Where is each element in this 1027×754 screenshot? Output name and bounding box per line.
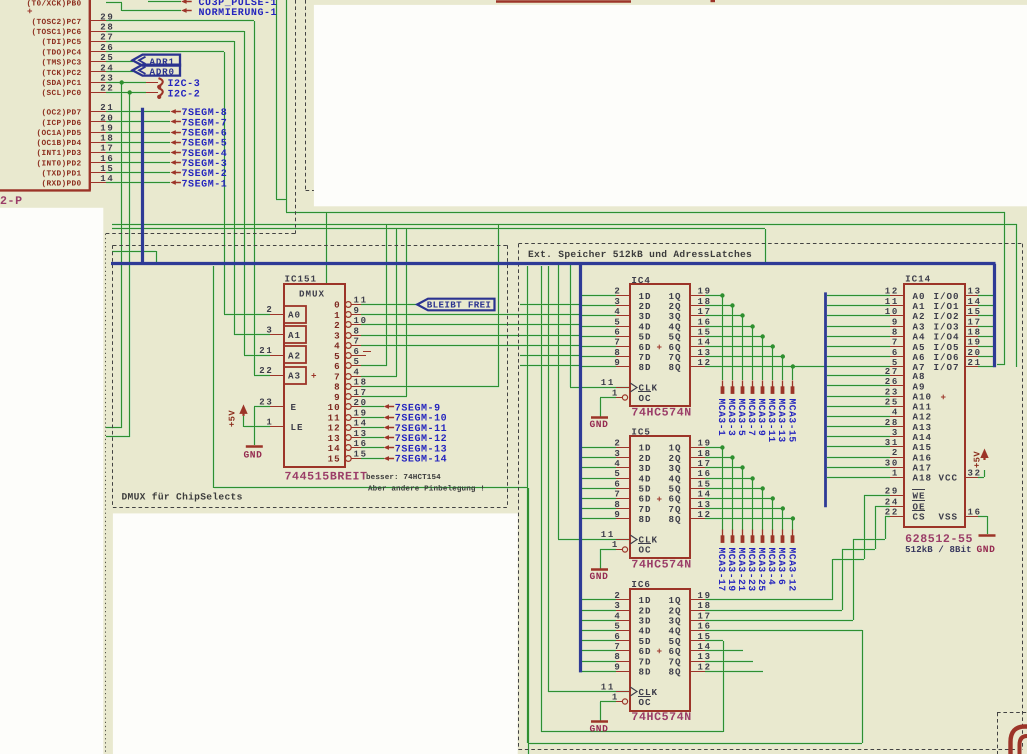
svg-text:5: 5 [354,357,361,367]
svg-text:13: 13 [968,287,982,297]
svg-text:24: 24 [885,497,899,507]
svg-text:13: 13 [698,652,712,662]
svg-text:9: 9 [614,510,621,520]
svg-text:3: 3 [614,601,621,611]
svg-text:1: 1 [612,693,619,703]
svg-text:MCA3-6: MCA3-6 [776,548,787,586]
svg-text:74HC574N: 74HC574N [631,559,691,572]
svg-text:4: 4 [614,307,621,317]
svg-text:I2C-2: I2C-2 [168,89,201,100]
svg-text:17: 17 [354,388,368,398]
svg-text:3: 3 [614,449,621,459]
svg-text:29: 29 [100,12,114,22]
svg-text:17: 17 [698,611,712,621]
svg-text:+: + [311,371,318,382]
svg-text:21: 21 [100,103,114,113]
svg-text:9: 9 [892,317,899,327]
svg-text:7SEGM-1: 7SEGM-1 [182,179,228,190]
svg-text:+: + [941,392,948,403]
svg-text:19: 19 [698,591,712,601]
svg-text:MCA3-19: MCA3-19 [726,548,737,592]
svg-text:19: 19 [100,123,114,133]
svg-text:IC14: IC14 [905,274,931,285]
svg-text:7: 7 [614,490,621,500]
svg-text:8Q: 8Q [669,362,682,373]
svg-text:GND: GND [977,544,996,555]
svg-text:+: + [657,494,664,505]
svg-text:A1: A1 [288,330,301,341]
svg-text:MCA3-17: MCA3-17 [716,548,727,592]
svg-text:23: 23 [100,74,114,84]
svg-text:Aber andere Pinbelegung !: Aber andere Pinbelegung ! [368,485,485,494]
svg-text:IC6: IC6 [631,579,651,590]
svg-text:25: 25 [100,53,114,63]
svg-text:17: 17 [968,317,982,327]
svg-text:Ext. Speicher 512kB und Adress: Ext. Speicher 512kB und AdressLatches [528,249,752,260]
svg-text:11: 11 [601,682,615,692]
svg-text:GND: GND [590,723,609,734]
svg-text:8: 8 [614,348,621,358]
svg-text:15: 15 [698,632,712,642]
svg-text:20: 20 [354,398,368,408]
svg-text:19: 19 [698,439,712,449]
svg-text:(T0/XCK)PB0: (T0/XCK)PB0 [27,0,82,9]
svg-text:8: 8 [354,326,361,336]
svg-text:29: 29 [885,487,899,497]
svg-text:14: 14 [698,642,712,652]
svg-text:(OC2)PD7: (OC2)PD7 [42,109,82,118]
svg-text:8Q: 8Q [669,514,682,525]
svg-text:6: 6 [614,632,621,642]
svg-text:1: 1 [612,540,619,550]
svg-text:MCA3-23: MCA3-23 [746,548,757,592]
svg-text:(TOSC2)PC7: (TOSC2)PC7 [32,18,82,27]
svg-text:11: 11 [601,378,615,388]
svg-text:8D: 8D [639,667,652,678]
svg-text:I/O7: I/O7 [934,362,960,373]
svg-text:(TXD)PD1: (TXD)PD1 [42,170,82,179]
svg-text:17: 17 [698,307,712,317]
svg-text:IC4: IC4 [631,275,651,286]
svg-text:1: 1 [612,388,619,398]
svg-text:OC: OC [639,393,652,404]
svg-text:CS: CS [913,512,926,523]
svg-text:(TCK)PC2: (TCK)PC2 [42,69,82,78]
svg-text:16: 16 [698,317,712,327]
svg-text:+: + [657,646,664,657]
svg-text:DMUX für ChipSelects: DMUX für ChipSelects [122,491,243,502]
svg-text:13: 13 [354,429,368,439]
svg-text:15: 15 [698,328,712,338]
svg-text:14: 14 [698,338,712,348]
svg-text:26: 26 [885,377,899,387]
svg-text:4: 4 [892,408,899,418]
svg-text:13: 13 [698,500,712,510]
svg-text:15: 15 [354,449,368,459]
svg-text:(OC1B)PD4: (OC1B)PD4 [37,139,82,148]
svg-text:2: 2 [266,305,273,315]
svg-text:(SCL)PC0: (SCL)PC0 [42,89,82,98]
svg-text:VSS: VSS [939,512,959,523]
svg-text:14: 14 [968,297,982,307]
svg-text:ADR0: ADR0 [150,67,175,78]
svg-text:MCA3-7: MCA3-7 [746,399,757,437]
svg-text:13: 13 [698,348,712,358]
svg-text:1: 1 [266,418,273,428]
svg-text:26: 26 [100,43,114,53]
svg-text:2: 2 [892,448,899,458]
svg-text:4: 4 [354,367,361,377]
svg-text:MCA3-11: MCA3-11 [766,399,777,443]
svg-text:23: 23 [259,397,273,407]
svg-text:24: 24 [100,63,114,73]
svg-text:20: 20 [968,348,982,358]
svg-text:8D: 8D [639,362,652,373]
svg-text:2-P: 2-P [0,195,23,208]
svg-text:5: 5 [614,469,621,479]
svg-text:30: 30 [885,458,899,468]
svg-text:9: 9 [354,306,361,316]
svg-text:27: 27 [885,367,899,377]
svg-text:17: 17 [100,144,114,154]
svg-text:11: 11 [354,296,368,306]
svg-text:8: 8 [614,500,621,510]
svg-text:512kB / 8Bit: 512kB / 8Bit [905,545,972,555]
svg-text:9: 9 [614,358,621,368]
svg-text:16: 16 [968,508,982,518]
svg-text:6: 6 [892,348,899,358]
svg-text:16: 16 [354,439,368,449]
svg-text:74HC574N: 74HC574N [631,711,691,724]
svg-text:E: E [291,402,298,413]
svg-text:4: 4 [614,459,621,469]
svg-text:(RXD)PD0: (RXD)PD0 [42,180,82,189]
svg-text:MCA3-9: MCA3-9 [756,399,767,437]
svg-text:22: 22 [259,366,273,376]
svg-text:3: 3 [266,326,273,336]
svg-text:32: 32 [968,469,982,479]
svg-text:3: 3 [614,297,621,307]
svg-text:19: 19 [354,408,368,418]
svg-text:21: 21 [968,358,982,368]
svg-text:6: 6 [614,479,621,489]
svg-text:GND: GND [590,419,609,430]
svg-text:A18: A18 [913,473,933,484]
svg-text:6: 6 [614,328,621,338]
svg-text:MCA3-4: MCA3-4 [766,548,777,586]
svg-text:MCA3-1: MCA3-1 [716,399,727,437]
svg-text:MCA3-25: MCA3-25 [756,548,767,592]
svg-text:15: 15 [328,453,341,464]
svg-text:1: 1 [892,469,899,479]
svg-text:A3: A3 [288,371,301,382]
svg-text:(INT1)PD3: (INT1)PD3 [37,149,82,158]
svg-text:19: 19 [968,338,982,348]
svg-text:744515BREIT: 744515BREIT [285,470,368,483]
svg-text:7: 7 [614,338,621,348]
svg-text:(ICP)PD6: (ICP)PD6 [42,119,82,128]
svg-text:11: 11 [885,297,899,307]
svg-text:18: 18 [698,449,712,459]
svg-text:7SEGM-14: 7SEGM-14 [395,455,447,466]
svg-text:16: 16 [698,622,712,632]
svg-text:18: 18 [698,297,712,307]
svg-text:10: 10 [354,316,368,326]
svg-text:MCA3-15: MCA3-15 [786,399,797,443]
svg-text:WE: WE [913,491,926,502]
svg-text:11: 11 [601,530,615,540]
svg-text:22: 22 [885,508,899,518]
svg-text:5: 5 [614,622,621,632]
svg-text:MCA3-21: MCA3-21 [736,548,747,592]
svg-text:(TDI)PC5: (TDI)PC5 [42,38,82,47]
svg-text:23: 23 [885,387,899,397]
svg-text:18: 18 [698,601,712,611]
svg-text:GND: GND [590,571,609,582]
svg-text:12: 12 [885,287,899,297]
svg-text:(TDO)PC4: (TDO)PC4 [42,48,82,57]
svg-text:2: 2 [614,439,621,449]
svg-text:74HC574N: 74HC574N [631,407,691,420]
svg-text:16: 16 [698,469,712,479]
svg-text:8Q: 8Q [669,667,682,678]
svg-text:+5V: +5V [228,410,238,427]
svg-text:9: 9 [614,662,621,672]
svg-text:MCA3-13: MCA3-13 [776,399,787,443]
svg-text:3: 3 [892,428,899,438]
svg-text:8: 8 [614,652,621,662]
svg-text:(TOSC1)PC6: (TOSC1)PC6 [32,28,82,37]
svg-text:besser: 74HCT154: besser: 74HCT154 [366,473,441,482]
svg-text:21: 21 [259,346,273,356]
svg-text:5: 5 [614,317,621,327]
svg-text:MCA3-12: MCA3-12 [786,548,797,592]
svg-text:22: 22 [100,84,114,94]
svg-text:+: + [657,342,664,353]
svg-text:19: 19 [698,287,712,297]
svg-text:VCC: VCC [939,473,959,484]
svg-text:12: 12 [698,510,712,520]
svg-text:(OC1A)PD5: (OC1A)PD5 [37,129,82,138]
svg-text:25: 25 [885,397,899,407]
svg-text:GND: GND [244,450,263,461]
svg-text:2: 2 [614,287,621,297]
svg-text:14: 14 [698,490,712,500]
svg-text:LE: LE [291,422,304,433]
svg-text:7: 7 [614,642,621,652]
svg-text:(TMS)PC3: (TMS)PC3 [42,59,82,68]
svg-text:(INT0)PD2: (INT0)PD2 [37,159,82,168]
svg-text:MCA3-3: MCA3-3 [726,399,737,437]
svg-text:15: 15 [968,307,982,317]
svg-text:31: 31 [885,438,899,448]
svg-text:15: 15 [698,479,712,489]
svg-text:NORMIERUNG-1: NORMIERUNG-1 [199,8,278,19]
svg-text:16: 16 [100,154,114,164]
svg-text:4: 4 [614,611,621,621]
svg-text:8D: 8D [639,514,652,525]
svg-text:10: 10 [885,307,899,317]
svg-text:20: 20 [100,113,114,123]
svg-text:MCA3-5: MCA3-5 [736,399,747,437]
svg-text:7: 7 [892,338,899,348]
svg-text:2: 2 [614,591,621,601]
svg-text:IC151: IC151 [285,274,318,285]
svg-text:14: 14 [100,174,114,184]
svg-text:A0: A0 [288,310,301,321]
svg-text:+5V: +5V [973,451,983,468]
svg-text:28: 28 [100,23,114,33]
svg-text:8: 8 [892,328,899,338]
svg-text:18: 18 [100,134,114,144]
svg-text:6: 6 [354,347,361,357]
svg-text:15: 15 [100,164,114,174]
svg-text:A2: A2 [288,350,301,361]
svg-text:14: 14 [354,419,368,429]
svg-text:18: 18 [354,378,368,388]
svg-text:(SDA)PC1: (SDA)PC1 [42,79,82,88]
svg-text:OC: OC [639,545,652,556]
svg-text:28: 28 [885,418,899,428]
svg-text:27: 27 [100,33,114,43]
svg-text:7: 7 [354,337,361,347]
svg-text:17: 17 [698,459,712,469]
svg-text:DMUX: DMUX [299,289,325,300]
svg-text:BLEIBT FREI: BLEIBT FREI [427,300,492,311]
svg-text:OC: OC [639,697,652,708]
svg-text:12: 12 [698,662,712,672]
svg-text:18: 18 [968,328,982,338]
svg-text:12: 12 [698,358,712,368]
svg-text:IC5: IC5 [631,427,651,438]
